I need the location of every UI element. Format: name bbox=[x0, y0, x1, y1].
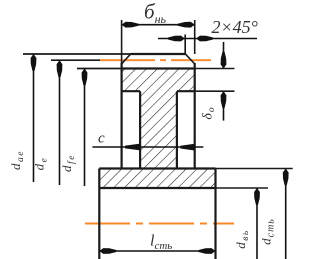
hub left edge bbox=[98, 169, 100, 259]
pitch line (orange centre line through rim) bbox=[100, 59, 211, 61]
gear disk hatched section bbox=[140, 91, 177, 168]
dimension line d_v (bore diameter) bbox=[254, 188, 260, 259]
svg-text:2×45°: 2×45° bbox=[212, 17, 258, 37]
rim right edge extension up to b dimension bbox=[194, 20, 196, 54]
disk left wall bbox=[139, 91, 141, 168]
dimension c (disk thickness) bbox=[92, 144, 203, 151]
chamfer dimension line 2x45 bbox=[158, 35, 257, 55]
rim left edge extension up to b dimension bbox=[121, 20, 123, 63]
dimension line d_e bbox=[57, 60, 63, 185]
dimension delta0 (rim thickness) bbox=[221, 42, 227, 121]
root line bbox=[122, 67, 195, 69]
hub wall hatched section bbox=[99, 169, 215, 189]
recess top right bbox=[177, 90, 195, 92]
extension line for pitch diameter (black part) bbox=[51, 59, 100, 61]
wheel axis centre line (orange) bbox=[85, 223, 234, 225]
rim top edge (tip line) bbox=[131, 53, 186, 55]
hub top extension line for d_st dimension bbox=[216, 168, 293, 170]
dimension line d_ae bbox=[31, 54, 37, 182]
left chamfer bbox=[122, 54, 131, 64]
rim left edge bbox=[120, 63, 122, 169]
hub right edge bbox=[214, 169, 216, 259]
gear rim hatched section bbox=[122, 69, 195, 92]
recess top left bbox=[122, 90, 141, 92]
rim right edge bbox=[194, 63, 196, 169]
extension line for da (tip diameter) bbox=[23, 53, 131, 55]
bore line / hub hatch bottom bbox=[99, 187, 215, 189]
dimension line d_fe bbox=[82, 69, 88, 187]
svg-text:c: c bbox=[98, 131, 105, 147]
disk right wall bbox=[176, 91, 178, 168]
hub top / flange top line bbox=[99, 167, 215, 169]
bore extension line for d_v dimension bbox=[216, 187, 269, 189]
dimension l_st (hub length) bbox=[99, 248, 215, 254]
extension line for df (root diameter) bbox=[77, 68, 122, 70]
recess top right extension for delta0 bbox=[195, 90, 235, 92]
right chamfer 2x45 bbox=[185, 54, 195, 64]
root line right extension for delta0 bbox=[195, 68, 235, 70]
dimension b (rim width) bbox=[122, 22, 195, 28]
dimension line d_st (hub diameter) bbox=[283, 169, 289, 259]
